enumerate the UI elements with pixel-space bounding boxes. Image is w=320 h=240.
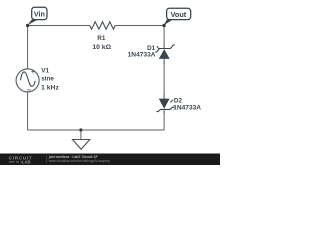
svg-text:10 kΩ: 10 kΩ — [92, 44, 111, 51]
svg-text:▪LAB: ▪LAB — [20, 160, 30, 165]
svg-text:1N4733A: 1N4733A — [128, 52, 156, 59]
svg-text:sine: sine — [41, 76, 54, 83]
svg-text:Vout: Vout — [171, 10, 187, 19]
svg-text:V1: V1 — [41, 68, 49, 75]
svg-text:1N4733A: 1N4733A — [173, 104, 201, 111]
svg-text:1 kHz: 1 kHz — [41, 84, 59, 91]
svg-text:www.circuitlab.com/circuit/rvq: www.circuitlab.com/circuit/rvqp/N-baqrxz… — [49, 159, 110, 163]
svg-text:Vin: Vin — [34, 10, 45, 19]
svg-text:R1: R1 — [97, 35, 106, 42]
